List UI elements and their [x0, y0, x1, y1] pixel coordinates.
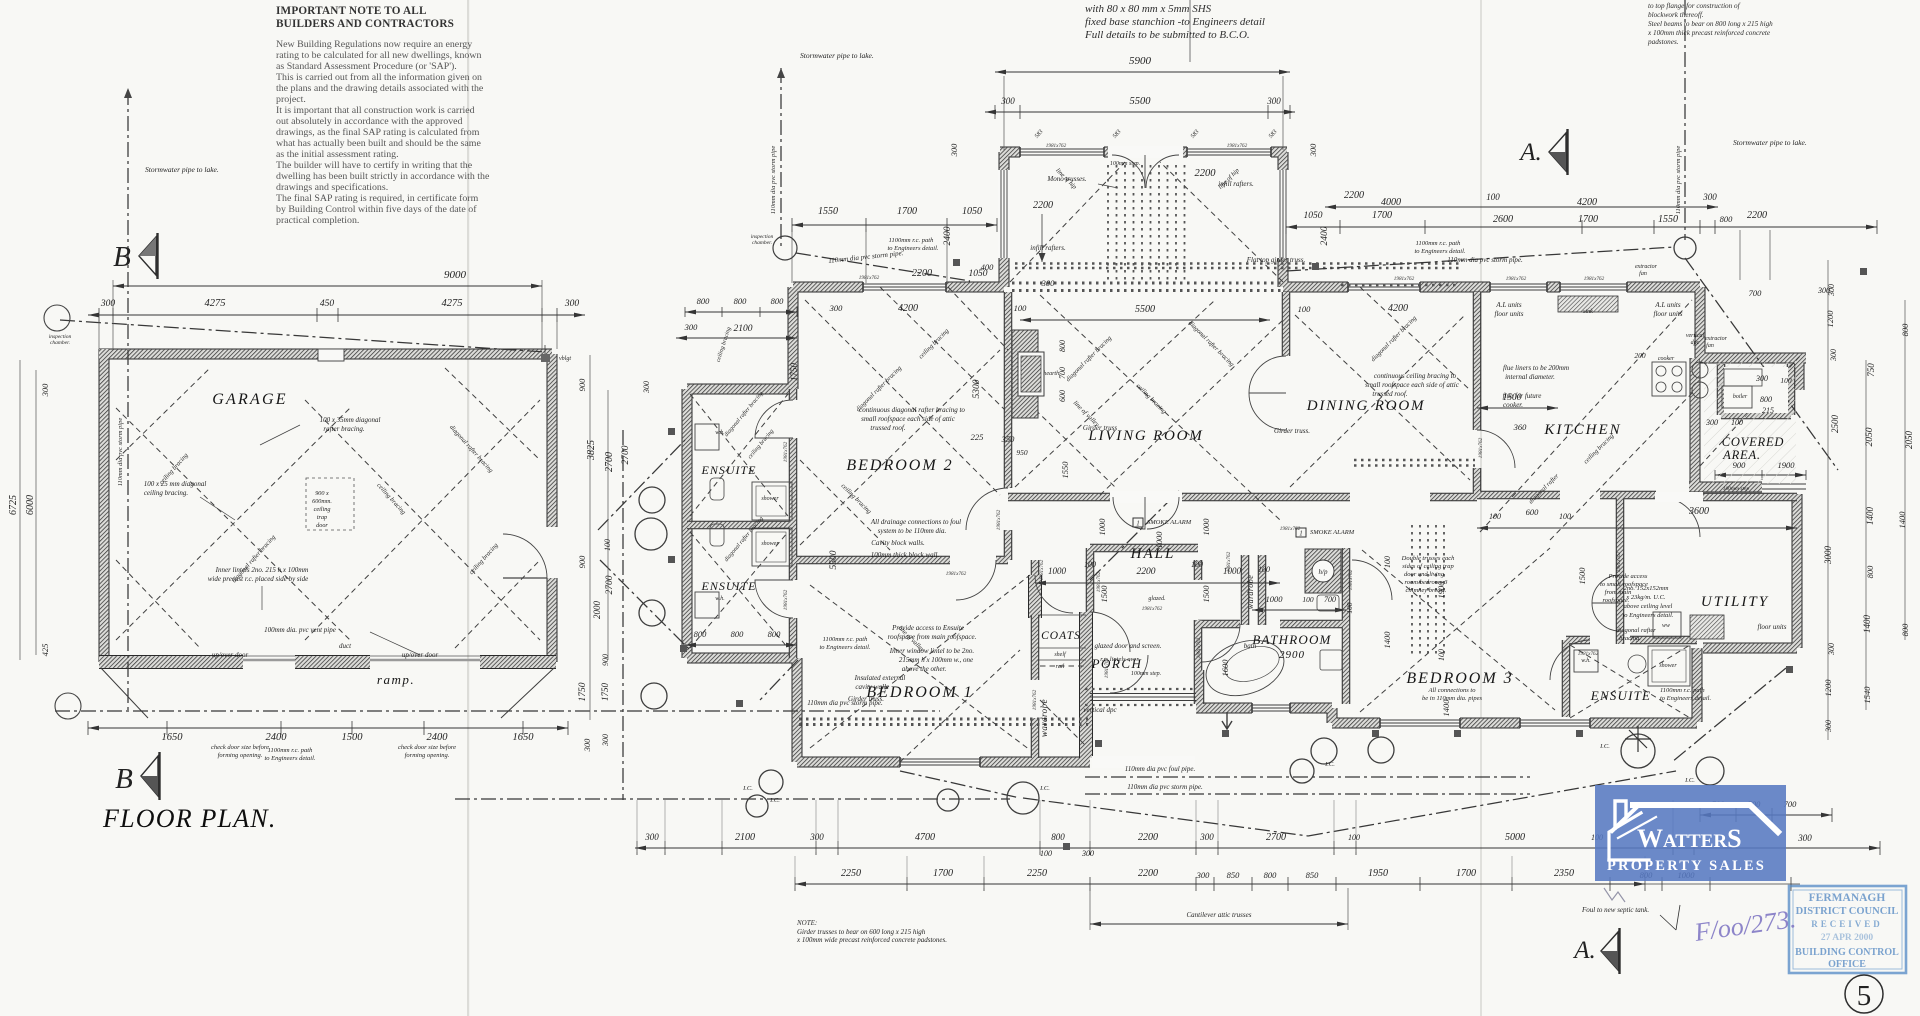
svg-text:1981x762: 1981x762 [1394, 276, 1415, 282]
svg-text:chamber.: chamber. [752, 240, 772, 246]
svg-text:ENSUITE: ENSUITE [701, 463, 757, 477]
svg-text:400: 400 [981, 262, 995, 272]
svg-text:1400: 1400 [1865, 507, 1875, 526]
svg-text:2700: 2700 [605, 575, 615, 594]
svg-text:1100mm r.c. path: 1100mm r.c. path [1660, 687, 1705, 694]
svg-text:as the initial assessment rati: as the initial assessment rating. [276, 149, 399, 160]
svg-text:door and living: door and living [1404, 571, 1445, 578]
svg-text:900 x: 900 x [315, 490, 329, 497]
svg-text:950: 950 [1016, 448, 1028, 457]
svg-text:5300: 5300 [972, 379, 982, 398]
svg-text:Girder truss: Girder truss [1083, 424, 1117, 432]
svg-text:100mm step.: 100mm step. [1131, 671, 1161, 677]
svg-text:1540: 1540 [1862, 686, 1872, 704]
svg-text:2200: 2200 [1344, 190, 1364, 201]
svg-text:Inner lintels 2no. 215 h x 100: Inner lintels 2no. 215 h x 100mm [215, 566, 309, 574]
svg-text:800: 800 [1900, 623, 1910, 637]
svg-text:by Building Control within fiv: by Building Control within five days of … [276, 204, 477, 215]
svg-text:project.: project. [276, 94, 306, 105]
svg-text:1400: 1400 [1862, 615, 1872, 634]
svg-text:trussed roof.: trussed roof. [1372, 390, 1407, 398]
svg-text:425: 425 [40, 644, 50, 657]
svg-text:300: 300 [1817, 286, 1830, 295]
svg-text:300: 300 [564, 299, 580, 309]
svg-text:IMPORTANT NOTE TO ALL: IMPORTANT NOTE TO ALL [276, 5, 427, 17]
svg-text:trap: trap [317, 514, 327, 521]
svg-text:1981x762: 1981x762 [1032, 689, 1038, 710]
svg-text:above the other.: above the other. [902, 665, 947, 673]
svg-text:1400: 1400 [1897, 511, 1907, 529]
svg-text:cavity walls: cavity walls [855, 683, 889, 691]
svg-text:It is important that all const: It is important that all construction wo… [276, 105, 475, 116]
svg-text:300: 300 [601, 734, 610, 747]
svg-text:215: 215 [1762, 406, 1774, 415]
svg-text:800: 800 [1720, 214, 1734, 224]
svg-text:300: 300 [1702, 192, 1717, 202]
svg-text:wide precast r.c. placed side: wide precast r.c. placed side by side [208, 575, 308, 583]
svg-text:300: 300 [582, 738, 592, 753]
svg-text:dpc: dpc [1691, 340, 1700, 346]
svg-text:shower: shower [1659, 663, 1677, 669]
svg-text:boiler: boiler [1733, 394, 1748, 400]
svg-text:2900: 2900 [1279, 649, 1305, 661]
svg-text:The builder will have to certi: The builder will have to certify in writ… [276, 160, 473, 171]
svg-text:DINING ROOM: DINING ROOM [1306, 398, 1426, 414]
svg-text:roofspace.: roofspace. [1602, 597, 1629, 604]
svg-text:1500: 1500 [1577, 567, 1587, 585]
svg-text:internal diameter.: internal diameter. [1505, 373, 1555, 381]
svg-text:9000: 9000 [444, 269, 467, 281]
svg-text:flue liners to be 200mm: flue liners to be 200mm [1503, 364, 1569, 372]
svg-text:1500: 1500 [1099, 585, 1109, 603]
svg-text:2200: 2200 [1195, 168, 1217, 179]
svg-text:1981x762: 1981x762 [1227, 143, 1248, 149]
svg-text:100: 100 [1302, 595, 1314, 604]
svg-text:Cantilever attic trusses: Cantilever attic trusses [1187, 911, 1252, 919]
svg-text:1700: 1700 [897, 206, 917, 217]
svg-text:4000: 4000 [1381, 197, 1401, 208]
svg-text:2500: 2500 [1830, 415, 1840, 434]
svg-text:the plans and the drawing deta: the plans and the drawing details associ… [276, 83, 484, 94]
svg-text:1981x762: 1981x762 [1584, 276, 1605, 282]
svg-text:ceiling bracing.: ceiling bracing. [144, 489, 189, 497]
svg-text:chamber.: chamber. [50, 340, 70, 346]
svg-text:1000: 1000 [1097, 518, 1107, 536]
svg-text:1981x762: 1981x762 [1142, 606, 1163, 612]
svg-text:1981x762: 1981x762 [1039, 559, 1045, 580]
svg-text:up/over door: up/over door [212, 651, 249, 659]
svg-text:B: B [113, 241, 131, 273]
svg-text:100: 100 [1258, 565, 1270, 574]
svg-text:extractor: extractor [1705, 336, 1728, 342]
svg-text:100: 100 [1780, 376, 1792, 385]
svg-text:6000: 6000 [25, 495, 36, 515]
svg-text:to small roofspace: to small roofspace [1600, 581, 1648, 588]
svg-text:glazed door and screen.: glazed door and screen. [1094, 642, 1161, 650]
svg-text:check door size before: check door size before [398, 744, 456, 751]
svg-text:360: 360 [1513, 422, 1528, 432]
svg-text:floor units: floor units [1495, 310, 1524, 318]
svg-text:100: 100 [1191, 560, 1203, 569]
svg-text:1600: 1600 [1220, 659, 1230, 677]
svg-text:5: 5 [1857, 980, 1872, 1012]
svg-text:x 100mm wide precast reinforce: x 100mm wide precast reinforced concrete… [796, 936, 947, 944]
svg-text:1650: 1650 [162, 732, 184, 743]
svg-text:continuous diagonal rafter bra: continuous diagonal rafter bracing to [859, 406, 965, 414]
svg-text:OFFICE: OFFICE [1828, 959, 1866, 970]
svg-text:above ceiling level: above ceiling level [1624, 603, 1673, 610]
svg-text:fixed base stanchion -to Engin: fixed base stanchion -to Engineers detai… [1085, 16, 1265, 28]
svg-text:2200: 2200 [912, 268, 932, 279]
svg-text:100: 100 [1040, 849, 1052, 858]
svg-text:300: 300 [1199, 832, 1214, 842]
svg-text:5000: 5000 [1505, 832, 1525, 843]
svg-text:All drainage connections to fo: All drainage connections to foul [870, 518, 961, 526]
svg-text:BUILDERS AND CONTRACTORS: BUILDERS AND CONTRACTORS [276, 18, 454, 30]
svg-text:1000: 1000 [1223, 566, 1242, 576]
svg-text:900: 900 [577, 555, 587, 569]
svg-text:Flat top girder truss.: Flat top girder truss. [1246, 256, 1306, 264]
svg-text:6725: 6725 [8, 495, 19, 515]
svg-text:2200: 2200 [1747, 210, 1767, 221]
svg-text:800: 800 [694, 629, 708, 639]
svg-text:PROPERTY SALES: PROPERTY SALES [1607, 858, 1766, 874]
svg-text:1500: 1500 [342, 732, 364, 743]
svg-text:2700: 2700 [604, 452, 615, 472]
svg-text:100: 100 [1345, 602, 1354, 614]
svg-text:1400: 1400 [1441, 699, 1451, 717]
svg-text:110mm dia pvc storm pipe.: 110mm dia pvc storm pipe. [1447, 256, 1523, 264]
svg-text:300: 300 [1824, 720, 1833, 733]
svg-text:5500: 5500 [1135, 304, 1155, 315]
svg-text:Stormwater pipe to lake.: Stormwater pipe to lake. [1733, 138, 1807, 147]
svg-text:w.h.: w.h. [715, 596, 725, 602]
svg-text:4200: 4200 [1388, 303, 1408, 314]
svg-text:UTILITY: UTILITY [1701, 594, 1769, 610]
svg-text:2250: 2250 [1027, 868, 1047, 879]
svg-text:system to be 110mm dia.: system to be 110mm dia. [878, 527, 947, 535]
svg-text:2250: 2250 [841, 868, 861, 879]
svg-text:1200: 1200 [1825, 310, 1835, 328]
svg-text:300: 300 [1705, 418, 1718, 427]
svg-text:NOTE:: NOTE: [796, 919, 817, 927]
svg-text:110mm dia pvc storm pipe: 110mm dia pvc storm pipe [770, 146, 777, 215]
svg-text:300: 300 [644, 832, 659, 842]
svg-text:GARAGE: GARAGE [212, 391, 287, 408]
svg-text:800: 800 [1051, 832, 1065, 842]
svg-text:1500: 1500 [1503, 393, 1522, 403]
svg-text:dwelling has been built strict: dwelling has been built strictly in acco… [276, 171, 490, 182]
svg-text:padstones.: padstones. [1647, 38, 1679, 46]
svg-text:x 23kg/m. U.C.: x 23kg/m. U.C. [1625, 594, 1666, 601]
svg-text:300: 300 [1308, 143, 1318, 158]
svg-text:800: 800 [1760, 395, 1772, 404]
svg-text:sink: sink [1583, 309, 1593, 315]
svg-text:bracing.: bracing. [1619, 635, 1641, 642]
svg-text:HALL: HALL [1130, 546, 1176, 562]
svg-text:cooker: cooker [1658, 356, 1675, 362]
svg-text:300: 300 [1081, 849, 1094, 858]
svg-text:Stormwater pipe to lake.: Stormwater pipe to lake. [145, 165, 219, 174]
svg-text:900: 900 [1733, 460, 1747, 470]
svg-text:2400: 2400 [943, 226, 953, 245]
svg-text:infill rafters.: infill rafters. [1030, 244, 1066, 252]
svg-text:1750: 1750 [789, 363, 799, 382]
svg-text:350: 350 [1001, 434, 1016, 444]
svg-text:diagonal rafter: diagonal rafter [1616, 627, 1656, 634]
svg-text:to Engineers detail.: to Engineers detail. [264, 755, 315, 762]
svg-text:1981x762: 1981x762 [946, 571, 967, 577]
svg-text:110mm dia pvc foul pipe.: 110mm dia pvc foul pipe. [1125, 765, 1196, 773]
svg-text:2200: 2200 [1137, 567, 1156, 577]
svg-text:to Engineers detail.: to Engineers detail. [1414, 248, 1465, 255]
svg-text:1750: 1750 [600, 683, 610, 702]
svg-text:1: 1 [1136, 520, 1140, 528]
svg-text:Inner window lintel to be 2no.: Inner window lintel to be 2no. [889, 647, 975, 655]
svg-text:Mono trusses.: Mono trusses. [1046, 175, 1087, 183]
svg-text:100: 100 [1437, 649, 1446, 661]
svg-text:100mm step.: 100mm step. [1110, 161, 1140, 167]
svg-text:continuous ceiling bracing to: continuous ceiling bracing to [1374, 372, 1457, 380]
svg-text:225: 225 [971, 432, 984, 442]
svg-text:110mm dia pvc storm pipe: 110mm dia pvc storm pipe [117, 418, 124, 487]
svg-text:rafter bracing.: rafter bracing. [323, 425, 364, 433]
svg-text:27 APR 2000: 27 APR 2000 [1821, 933, 1874, 943]
svg-text:100: 100 [1014, 303, 1028, 313]
svg-text:New Building Regulations now r: New Building Regulations now require an … [276, 39, 472, 50]
svg-text:850: 850 [1306, 870, 1320, 880]
svg-text:4275: 4275 [442, 298, 463, 309]
svg-text:1981x762: 1981x762 [1104, 657, 1110, 678]
svg-text:800: 800 [768, 629, 782, 639]
svg-text:1900: 1900 [1436, 581, 1446, 599]
svg-text:800: 800 [1058, 340, 1067, 352]
svg-text:100mm step: 100mm step [1723, 486, 1750, 492]
svg-text:trussed roof.: trussed roof. [870, 424, 905, 432]
svg-text:100 x 25 mm diagonal: 100 x 25 mm diagonal [144, 480, 207, 488]
svg-text:300: 300 [1041, 278, 1056, 288]
svg-text:BEDROOM 2: BEDROOM 2 [846, 457, 953, 474]
svg-text:w.h.: w.h. [1581, 658, 1591, 664]
svg-text:1981x762: 1981x762 [783, 589, 789, 610]
svg-text:ENSUITE: ENSUITE [1590, 688, 1651, 703]
svg-text:200: 200 [1634, 351, 1646, 360]
svg-text:1981x762: 1981x762 [1280, 526, 1301, 532]
svg-text:forming opening.: forming opening. [218, 752, 263, 759]
svg-text:out absolutely in accordance w: out absolutely in accordance with the ap… [276, 116, 463, 127]
svg-text:3825: 3825 [586, 440, 597, 461]
svg-text:Full details to be submitted t: Full details to be submitted to B.C.O. [1084, 29, 1250, 41]
svg-text:shower: shower [761, 541, 779, 547]
svg-text:5500: 5500 [1130, 96, 1152, 107]
svg-text:1000: 1000 [1154, 531, 1164, 549]
svg-text:Girder trusses to bear on 600: Girder trusses to bear on 600 long x 215… [797, 928, 926, 936]
svg-text:1550: 1550 [1060, 461, 1070, 479]
svg-text:800: 800 [771, 296, 785, 306]
svg-text:small roofspace each side of a: small roofspace each side of attic [861, 415, 956, 423]
svg-text:100: 100 [1731, 418, 1743, 427]
svg-text:duct: duct [339, 642, 352, 650]
svg-text:800: 800 [1900, 323, 1910, 337]
svg-text:2600: 2600 [1493, 214, 1513, 225]
svg-text:450: 450 [320, 299, 335, 309]
svg-text:ceiling: ceiling [314, 506, 331, 513]
svg-text:1000: 1000 [1266, 594, 1284, 604]
svg-text:5900: 5900 [1129, 55, 1152, 67]
svg-text:with 80 x 80 mm x 5mm SHS: with 80 x 80 mm x 5mm SHS [1085, 3, 1212, 15]
svg-text:850: 850 [1227, 870, 1241, 880]
svg-text:600: 600 [1058, 390, 1067, 402]
svg-text:I.C.: I.C. [1039, 785, 1050, 792]
svg-text:300: 300 [1829, 349, 1838, 362]
svg-text:as Standard Assessment Procedu: as Standard Assessment Procedure (or 'SA… [276, 61, 457, 72]
svg-text:door: door [316, 522, 328, 529]
svg-text:1981x762: 1981x762 [996, 509, 1002, 530]
svg-text:1100mm r.c. path: 1100mm r.c. path [1416, 240, 1461, 247]
svg-text:4275: 4275 [205, 298, 226, 309]
svg-text:This is carried out from all t: This is carried out from all the informa… [276, 72, 482, 83]
svg-text:A.L units: A.L units [1495, 301, 1521, 309]
svg-text:3000: 3000 [1823, 546, 1833, 566]
svg-text:1981x762: 1981x762 [783, 441, 789, 462]
svg-text:The final SAP rating is requir: The final SAP rating is required, in cer… [276, 193, 479, 204]
svg-text:1981x762: 1981x762 [1506, 276, 1527, 282]
svg-text:RECEIVED: RECEIVED [1811, 919, 1883, 929]
svg-text:Girder truss.: Girder truss. [848, 695, 884, 703]
svg-text:300: 300 [40, 383, 50, 398]
svg-text:1981x762: 1981x762 [859, 275, 880, 281]
svg-text:110mm dia pvc storm pipe.: 110mm dia pvc storm pipe. [1127, 783, 1203, 791]
svg-text:100: 100 [1084, 560, 1096, 569]
svg-text:A.: A. [1572, 937, 1596, 964]
svg-text:100: 100 [1486, 192, 1500, 202]
svg-text:1900: 1900 [1778, 460, 1796, 470]
svg-text:4200: 4200 [1577, 197, 1597, 208]
svg-text:COATS: COATS [1041, 630, 1081, 642]
svg-text:w.h.: w.h. [715, 430, 725, 436]
svg-text:1981x762: 1981x762 [1578, 651, 1599, 657]
svg-text:300: 300 [1827, 643, 1836, 656]
svg-text:be in 110mm dia. pipes: be in 110mm dia. pipes [1422, 695, 1482, 702]
svg-text:practical completion.: practical completion. [276, 215, 359, 226]
svg-text:vertical: vertical [1686, 333, 1705, 339]
svg-text:A.: A. [1518, 139, 1542, 166]
svg-text:1981x762: 1981x762 [1478, 437, 1484, 458]
svg-text:1700: 1700 [933, 868, 953, 879]
svg-text:2350: 2350 [1554, 868, 1574, 879]
svg-text:vblgt: vblgt [559, 356, 571, 362]
svg-text:fan: fan [1639, 270, 1647, 277]
svg-text:glazed.: glazed. [1148, 596, 1165, 602]
svg-text:1981x762: 1981x762 [1616, 551, 1622, 572]
svg-text:2050: 2050 [1904, 431, 1914, 450]
svg-text:SMOKE ALARM: SMOKE ALARM [1310, 529, 1355, 536]
svg-text:750: 750 [1866, 363, 1876, 377]
svg-text:shower: shower [761, 496, 779, 502]
svg-text:800: 800 [1865, 565, 1875, 579]
svg-text:300: 300 [1266, 96, 1281, 106]
svg-text:fan: fan [1706, 342, 1714, 349]
svg-text:FERMANAGH: FERMANAGH [1809, 892, 1886, 904]
svg-text:A.L units: A.L units [1654, 301, 1680, 309]
svg-text:1000: 1000 [1201, 518, 1211, 536]
svg-text:800: 800 [1264, 870, 1278, 880]
svg-text:2700: 2700 [621, 445, 631, 464]
svg-text:Double trusses each: Double trusses each [1401, 555, 1455, 562]
svg-text:700: 700 [1324, 595, 1336, 604]
svg-text:to Engineers detail.: to Engineers detail. [1660, 695, 1711, 702]
svg-text:2000: 2000 [592, 601, 602, 620]
svg-text:800: 800 [697, 296, 711, 306]
svg-text:I.C.: I.C. [1324, 761, 1335, 768]
svg-text:300: 300 [642, 381, 651, 394]
svg-text:1200: 1200 [1823, 679, 1833, 697]
svg-text:vertical dpc: vertical dpc [1083, 706, 1117, 714]
svg-text:300: 300 [100, 299, 116, 309]
svg-text:1550: 1550 [1658, 214, 1678, 225]
svg-text:300: 300 [1196, 870, 1211, 880]
svg-text:2400: 2400 [266, 732, 288, 743]
svg-text:1400: 1400 [1382, 631, 1392, 649]
svg-text:up/over door: up/over door [402, 651, 439, 659]
svg-text:wardrobe: wardrobe [1246, 575, 1255, 610]
svg-text:100: 100 [1298, 304, 1312, 314]
svg-text:600mm.: 600mm. [312, 498, 332, 505]
svg-text:floor units: floor units [1758, 623, 1787, 631]
svg-text:2050: 2050 [1865, 427, 1875, 446]
svg-text:BATHROOM: BATHROOM [1252, 632, 1331, 647]
svg-text:100: 100 [1559, 512, 1571, 521]
svg-text:DISTRICT COUNCIL: DISTRICT COUNCIL [1796, 906, 1899, 917]
svg-text:2200: 2200 [1138, 832, 1158, 843]
svg-text:All connections to: All connections to [1428, 687, 1477, 694]
svg-text:600: 600 [1526, 507, 1540, 517]
svg-text:blockwork thereoff.: blockwork thereoff. [1648, 11, 1704, 19]
svg-text:Insulated external: Insulated external [854, 674, 906, 682]
svg-text:300: 300 [1000, 96, 1015, 106]
svg-text:1100mm r.c. path: 1100mm r.c. path [268, 747, 313, 754]
svg-text:1950: 1950 [1368, 868, 1388, 879]
svg-text:rating to be calculated for al: rating to be calculated for all new dwel… [276, 50, 481, 61]
svg-text:700: 700 [1058, 367, 1067, 379]
svg-text:1981x762: 1981x762 [1046, 143, 1067, 149]
svg-text:roofspace from main roofspace.: roofspace from main roofspace. [888, 633, 977, 641]
svg-text:1050: 1050 [962, 206, 982, 217]
svg-text:check door size before: check door size before [211, 744, 269, 751]
svg-text:h/p: h/p [1319, 568, 1328, 576]
svg-text:100: 100 [1489, 512, 1501, 521]
svg-text:infill rafters.: infill rafters. [1218, 180, 1254, 188]
svg-text:300: 300 [1797, 833, 1812, 843]
svg-text:rail: rail [1056, 664, 1065, 670]
svg-text:Steel beams to bear on 800 lon: Steel beams to bear on 800 long x 215 hi… [1648, 20, 1773, 28]
svg-text:extractor: extractor [1635, 264, 1658, 270]
svg-text:Provide access to Ensuite: Provide access to Ensuite [891, 624, 964, 632]
svg-text:wardrobe: wardrobe [1039, 699, 1049, 737]
svg-text:COVERED: COVERED [1722, 435, 1785, 449]
svg-text:to Engineers detail.: to Engineers detail. [1622, 612, 1673, 619]
svg-text:to Engineers detail.: to Engineers detail. [819, 644, 870, 651]
svg-text:FLOOR PLAN.: FLOOR PLAN. [102, 804, 277, 833]
svg-text:1050: 1050 [1304, 211, 1323, 221]
svg-text:sides of ceiling trap: sides of ceiling trap [1402, 563, 1454, 570]
svg-text:Cavity block walls.: Cavity block walls. [871, 539, 925, 547]
svg-text:4200: 4200 [898, 303, 918, 314]
svg-text:1700: 1700 [1578, 214, 1598, 225]
svg-text:1650: 1650 [513, 732, 535, 743]
svg-text:ww: ww [1662, 623, 1670, 629]
svg-text:300: 300 [809, 832, 824, 842]
